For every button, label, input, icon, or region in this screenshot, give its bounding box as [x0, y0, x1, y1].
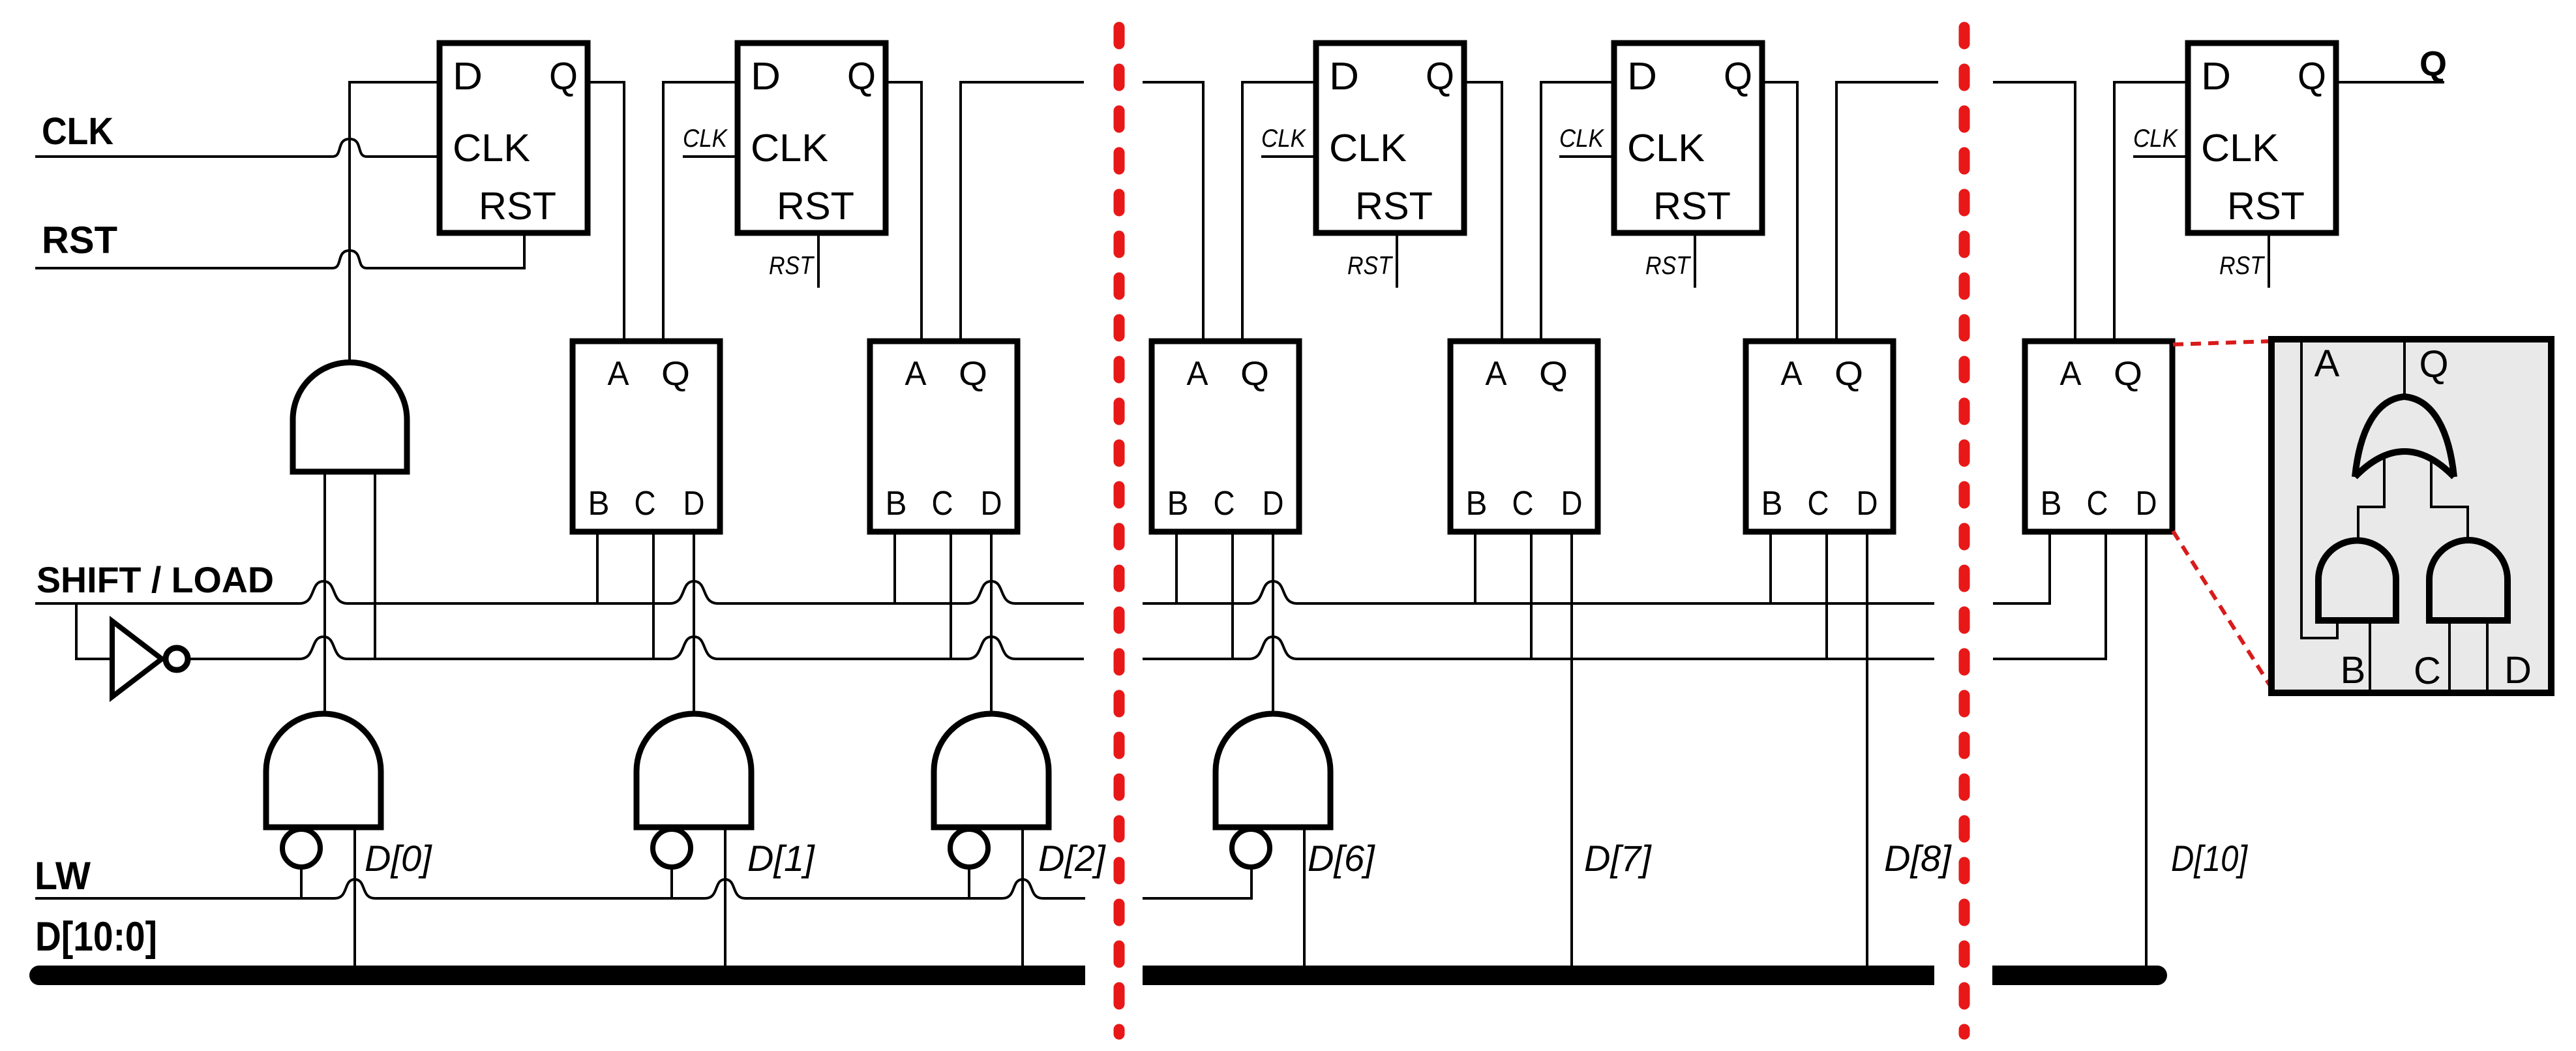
svg-text:A: A: [608, 355, 629, 393]
svg-text:Q: Q: [2114, 355, 2142, 393]
svg-text:D: D: [453, 55, 483, 98]
svg-text:CLK: CLK: [1329, 127, 1407, 170]
svg-text:Q: Q: [2419, 44, 2447, 84]
svg-text:D[8]: D[8]: [1884, 838, 1952, 879]
svg-text:D: D: [1857, 485, 1878, 523]
svg-text:C: C: [932, 485, 953, 523]
svg-text:A: A: [2314, 343, 2340, 385]
svg-text:B: B: [2041, 485, 2062, 523]
svg-text:CLK: CLK: [1627, 127, 1705, 170]
svg-text:RST: RST: [2227, 185, 2305, 228]
svg-text:RST: RST: [769, 252, 815, 280]
svg-text:Q: Q: [1835, 355, 1863, 393]
svg-text:D: D: [1263, 485, 1284, 523]
svg-text:Q: Q: [661, 355, 690, 393]
svg-text:D[2]: D[2]: [1038, 838, 1106, 879]
svg-text:B: B: [1167, 485, 1189, 523]
svg-text:A: A: [1781, 355, 1803, 393]
svg-text:A: A: [1187, 355, 1208, 393]
svg-text:RST: RST: [2219, 252, 2266, 280]
svg-text:CLK: CLK: [1559, 125, 1605, 153]
svg-text:SHIFT / LOAD: SHIFT / LOAD: [37, 559, 274, 600]
svg-text:Q: Q: [1240, 355, 1269, 393]
svg-text:CLK: CLK: [1261, 125, 1307, 153]
svg-text:CLK: CLK: [2201, 127, 2279, 170]
svg-text:Q: Q: [2419, 343, 2448, 386]
svg-text:CLK: CLK: [453, 127, 530, 170]
svg-text:D[1]: D[1]: [747, 838, 815, 879]
svg-text:B: B: [588, 485, 610, 523]
svg-text:RST: RST: [1653, 185, 1731, 228]
svg-text:CLK: CLK: [42, 110, 113, 153]
svg-text:D: D: [981, 485, 1002, 523]
svg-text:D[7]: D[7]: [1584, 838, 1652, 879]
svg-text:RST: RST: [777, 185, 854, 228]
svg-text:C: C: [2414, 650, 2441, 692]
svg-text:D: D: [1561, 485, 1583, 523]
svg-text:D: D: [2504, 649, 2532, 692]
svg-text:Q: Q: [2298, 55, 2326, 98]
svg-text:RST: RST: [1355, 185, 1433, 228]
svg-text:D: D: [683, 485, 705, 523]
svg-text:CLK: CLK: [2133, 125, 2179, 153]
svg-text:B: B: [886, 485, 907, 523]
svg-text:Q: Q: [959, 355, 987, 393]
svg-text:Q: Q: [1539, 355, 1568, 393]
svg-text:C: C: [2087, 485, 2108, 523]
svg-text:A: A: [1486, 355, 1507, 393]
svg-text:C: C: [635, 485, 656, 523]
svg-text:LW: LW: [35, 854, 91, 898]
svg-text:C: C: [1512, 485, 1534, 523]
svg-text:D[0]: D[0]: [365, 838, 432, 879]
svg-text:Q: Q: [1426, 55, 1454, 98]
svg-text:CLK: CLK: [751, 127, 828, 170]
svg-text:B: B: [1466, 485, 1488, 523]
svg-text:D[6]: D[6]: [1308, 838, 1375, 879]
svg-text:Q: Q: [847, 55, 876, 98]
svg-text:D: D: [2201, 55, 2231, 98]
svg-text:CLK: CLK: [683, 125, 728, 153]
svg-text:D: D: [2136, 485, 2157, 523]
svg-text:RST: RST: [479, 185, 556, 228]
svg-text:C: C: [1214, 485, 1235, 523]
svg-text:B: B: [1761, 485, 1783, 523]
svg-text:C: C: [1808, 485, 1829, 523]
svg-text:Q: Q: [549, 55, 578, 98]
svg-text:D: D: [751, 55, 781, 98]
svg-text:RST: RST: [1347, 252, 1394, 280]
svg-text:D: D: [1329, 55, 1359, 98]
svg-text:D[10:0]: D[10:0]: [35, 914, 157, 960]
svg-text:B: B: [2341, 649, 2366, 692]
svg-text:D[10]: D[10]: [2171, 838, 2248, 879]
svg-text:Q: Q: [1724, 55, 1752, 98]
svg-text:A: A: [2060, 355, 2082, 393]
svg-text:D: D: [1627, 55, 1657, 98]
svg-text:A: A: [905, 355, 927, 393]
svg-text:RST: RST: [1645, 252, 1692, 280]
svg-text:RST: RST: [42, 219, 117, 262]
